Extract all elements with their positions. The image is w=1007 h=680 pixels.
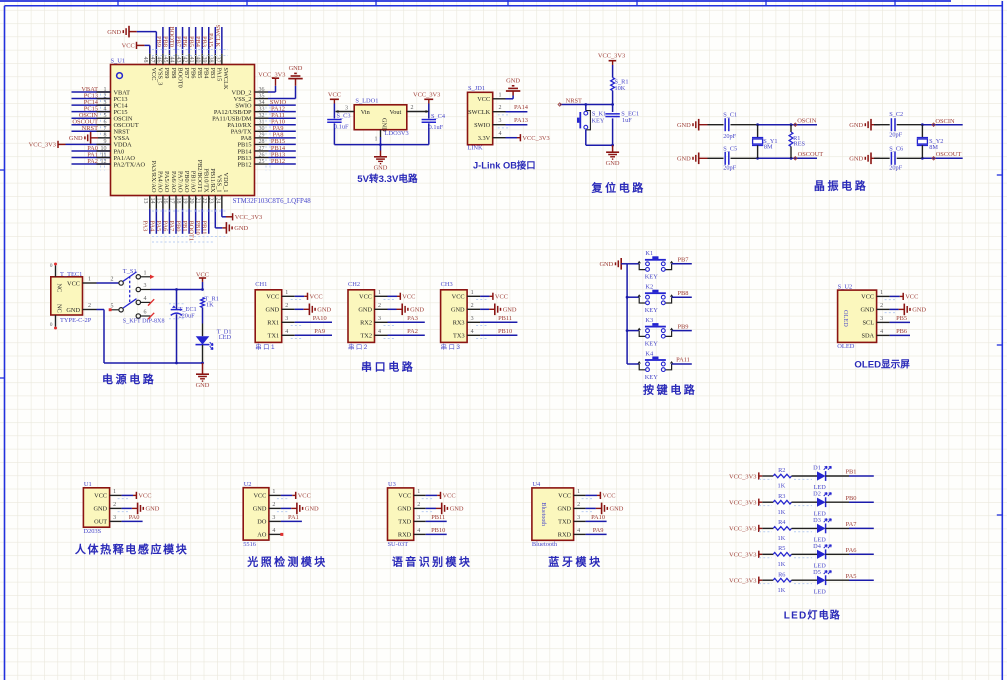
wire and node PB13 at MCU pin 26 xyxy=(255,151,296,164)
svg-text:PA7/AO: PA7/AO xyxy=(176,171,183,193)
power VCC at CH3 pin 1 xyxy=(467,290,508,301)
svg-text:OSCIN: OSCIN xyxy=(797,117,817,124)
power VCC_3V3 at LDO output xyxy=(413,92,440,112)
value serial port 3 xyxy=(441,343,462,351)
svg-text:TX3: TX3 xyxy=(453,333,465,340)
svg-text:D3: D3 xyxy=(813,517,821,524)
resistor R4 1K xyxy=(759,519,812,542)
svg-text:15: 15 xyxy=(155,198,161,204)
wire and node PC14 at MCU pin 3 xyxy=(72,99,111,112)
svg-text:GND: GND xyxy=(451,307,465,314)
svg-text:S_C1: S_C1 xyxy=(723,112,737,119)
svg-text:NRST: NRST xyxy=(82,125,98,132)
svg-text:30: 30 xyxy=(259,126,265,132)
svg-text:10: 10 xyxy=(101,146,107,152)
svg-text:PA11: PA11 xyxy=(676,357,690,364)
svg-text:D2: D2 xyxy=(813,491,821,498)
push button K1 KEY xyxy=(627,250,673,281)
svg-text:6: 6 xyxy=(144,310,147,316)
ground at key circuit xyxy=(599,258,627,270)
wire and node PB7 at key K1 xyxy=(672,257,692,264)
svg-text:0: 0 xyxy=(50,263,53,269)
svg-text:复位电路: 复位电路 xyxy=(591,181,646,195)
capacitor S_C1 20pF xyxy=(708,112,758,141)
svg-text:光照检测模块: 光照检测模块 xyxy=(246,555,327,569)
svg-text:20pF: 20pF xyxy=(723,133,736,140)
svg-text:PB0/AO: PB0/AO xyxy=(183,171,190,193)
svg-text:1K: 1K xyxy=(778,509,786,516)
svg-text:44: 44 xyxy=(168,57,174,63)
power VCC_3V3 at LED row 4 xyxy=(729,551,762,559)
svg-text:S_C3: S_C3 xyxy=(337,113,351,120)
svg-text:1: 1 xyxy=(272,489,275,495)
svg-text:GND: GND xyxy=(849,156,863,163)
svg-text:PA2: PA2 xyxy=(87,158,98,165)
ground at crystal 1 top xyxy=(677,119,708,131)
power VCC at CH2 pin 1 xyxy=(375,290,416,301)
svg-text:2: 2 xyxy=(577,502,580,508)
wire and node PA11 at MCU pin 32 xyxy=(255,112,296,125)
svg-text:VCC: VCC xyxy=(298,493,311,500)
svg-text:GND: GND xyxy=(677,156,691,163)
power VCC_3V3 at LED row 2 xyxy=(729,499,762,507)
svg-text:10K: 10K xyxy=(615,85,626,92)
svg-text:PB11: PB11 xyxy=(431,514,445,521)
ground at J-Link pin 1 xyxy=(493,78,521,99)
svg-text:4: 4 xyxy=(499,131,502,137)
svg-text:GND: GND xyxy=(677,122,691,129)
svg-text:LED: LED xyxy=(814,589,827,596)
wire power ground rail xyxy=(104,362,204,365)
svg-text:VCC: VCC xyxy=(196,271,209,278)
svg-text:PB5: PB5 xyxy=(188,36,195,47)
svg-text:GND: GND xyxy=(66,307,80,314)
svg-text:VCC: VCC xyxy=(67,280,80,287)
svg-text:PB11/RX: PB11/RX xyxy=(209,168,216,193)
value serial port 2 xyxy=(348,343,369,351)
svg-text:TX2: TX2 xyxy=(360,333,372,340)
svg-text:33: 33 xyxy=(259,106,265,112)
led D4 LED xyxy=(792,543,850,570)
svg-text:PB8: PB8 xyxy=(677,290,688,297)
svg-text:RX1: RX1 xyxy=(267,320,279,327)
svg-text:U4: U4 xyxy=(532,481,541,488)
value serial port 1 xyxy=(255,343,276,351)
connector S_U2 OLED body xyxy=(838,290,877,342)
svg-text:1: 1 xyxy=(471,290,474,296)
svg-text:2: 2 xyxy=(272,502,275,508)
svg-text:VCC: VCC xyxy=(122,43,135,50)
ground at U4 pin 2 xyxy=(574,502,624,514)
wire and node VBAT at MCU pin 1 xyxy=(72,86,111,99)
ground at crystal 2 bottom xyxy=(849,153,880,165)
svg-text:2: 2 xyxy=(111,277,114,283)
svg-text:20pF: 20pF xyxy=(889,164,902,171)
svg-text:SWIO: SWIO xyxy=(474,122,491,129)
ground at power circuit xyxy=(196,363,210,389)
svg-text:RX2: RX2 xyxy=(360,320,372,327)
wire and node PB5 at OLED pin 3 xyxy=(877,315,910,322)
svg-text:1: 1 xyxy=(375,137,378,143)
resistor S_R1 10K xyxy=(611,78,629,105)
wire and node PA10 at U4 pin 3 xyxy=(574,514,607,521)
wire and node BOOT1 at MCU pin 20 xyxy=(188,196,196,242)
svg-text:S_LDO1: S_LDO1 xyxy=(355,97,378,104)
push button K2 KEY xyxy=(627,284,673,315)
svg-text:8M: 8M xyxy=(764,143,773,150)
svg-text:20pF: 20pF xyxy=(723,164,736,171)
svg-text:VCC: VCC xyxy=(150,68,157,81)
svg-text:PA9: PA9 xyxy=(314,328,325,335)
connector CH2 body xyxy=(348,290,375,343)
svg-text:PA4: PA4 xyxy=(148,221,155,233)
svg-text:DO: DO xyxy=(257,519,267,526)
svg-text:KEY: KEY xyxy=(592,118,605,125)
designator CH1 xyxy=(255,281,267,288)
svg-text:S_C6: S_C6 xyxy=(889,145,903,152)
wire and node PB10 at CH3 pin 4 xyxy=(467,328,517,339)
svg-text:2: 2 xyxy=(104,93,107,99)
svg-text:RES: RES xyxy=(794,140,806,147)
pin TEC1 shell bottom xyxy=(50,315,57,330)
svg-text:PB1: PB1 xyxy=(845,469,856,476)
svg-text:PB7: PB7 xyxy=(183,68,190,79)
svg-text:PA6/AO: PA6/AO xyxy=(170,171,177,193)
wire and node PA6 at MCU pin 16 xyxy=(161,196,169,234)
svg-text:VCC_3V3: VCC_3V3 xyxy=(729,552,756,559)
wire and node PB6 at MCU pin 42 xyxy=(181,27,189,65)
svg-text:PA10: PA10 xyxy=(591,514,605,521)
wire and node PB0 at MCU pin 18 xyxy=(174,196,182,234)
svg-text:VCC: VCC xyxy=(310,294,323,301)
svg-text:VCC: VCC xyxy=(398,493,411,500)
svg-text:GND: GND xyxy=(599,261,613,268)
caption Bluetooth module xyxy=(548,555,602,569)
svg-text:VCC: VCC xyxy=(359,294,372,301)
wire and node PA4 at MCU pin 14 xyxy=(148,196,156,234)
svg-text:34: 34 xyxy=(259,100,265,106)
capacitor S_C6 20pF xyxy=(874,145,922,171)
svg-text:VCC_3V3: VCC_3V3 xyxy=(258,71,285,78)
wire and node PA7 at MCU pin 17 xyxy=(168,196,176,234)
wire OSCIN crystal 2 xyxy=(921,118,963,126)
svg-text:VCC_3V3: VCC_3V3 xyxy=(29,142,56,149)
led D3 LED xyxy=(792,517,850,544)
designator S_U2 xyxy=(838,283,853,290)
wire and node PB10 at MCU pin 21 xyxy=(194,196,202,235)
wire reset ground rail xyxy=(586,144,614,147)
svg-text:22: 22 xyxy=(201,198,207,204)
svg-text:OSCOUT: OSCOUT xyxy=(798,151,824,158)
svg-text:26: 26 xyxy=(259,152,265,158)
caption serial port circuit xyxy=(361,360,415,374)
wire and node PA3 at CH2 pin 3 xyxy=(375,315,425,326)
svg-text:1uF: 1uF xyxy=(622,117,632,124)
svg-text:VCC_3V3: VCC_3V3 xyxy=(729,473,756,480)
svg-text:4: 4 xyxy=(417,528,420,534)
svg-text:TXD: TXD xyxy=(398,519,411,526)
svg-text:GND: GND xyxy=(358,307,372,314)
wire and node PB11 at U3 pin 3 xyxy=(414,514,447,521)
svg-text:LED: LED xyxy=(219,334,232,341)
power VCC at OLED pin 1 xyxy=(877,290,919,301)
svg-text:串口电路: 串口电路 xyxy=(361,360,415,374)
svg-text:20pF: 20pF xyxy=(889,132,902,139)
svg-text:VCC_3V3: VCC_3V3 xyxy=(522,135,549,142)
ground at LDO rail xyxy=(374,151,388,172)
svg-text:VCC: VCC xyxy=(266,294,279,301)
wire and node PA2 at MCU pin 12 xyxy=(72,158,111,171)
wire and node PA10 at MCU pin 31 xyxy=(255,119,296,132)
wire and node PB11 at MCU pin 22 xyxy=(201,196,209,235)
svg-text:SDA: SDA xyxy=(861,333,874,340)
svg-text:PA14: PA14 xyxy=(514,104,529,111)
svg-text:1K: 1K xyxy=(778,535,786,542)
power VCC_3V3 at MCU pin 24 VDD_1 xyxy=(214,196,262,222)
svg-text:PB9: PB9 xyxy=(163,68,170,79)
svg-text:KEY: KEY xyxy=(645,340,659,347)
svg-text:PA5: PA5 xyxy=(846,573,857,580)
svg-text:0.1uF: 0.1uF xyxy=(334,124,349,131)
svg-text:VSS_1: VSS_1 xyxy=(216,175,223,193)
wire and node BOOT0 at MCU pin 44 xyxy=(168,26,176,64)
svg-text:3: 3 xyxy=(272,515,275,521)
svg-text:PB8: PB8 xyxy=(161,36,168,47)
svg-text:PB8: PB8 xyxy=(170,68,177,79)
led T_D1 LED xyxy=(196,329,232,364)
capacitor T_EC1 220uF xyxy=(169,290,197,364)
wire and node PA5 at MCU pin 15 xyxy=(155,196,163,234)
svg-text:PA13: PA13 xyxy=(514,117,528,124)
value SU-03T xyxy=(388,541,409,548)
svg-text:VCC: VCC xyxy=(558,493,571,500)
svg-text:GND: GND xyxy=(146,506,160,513)
svg-text:1: 1 xyxy=(144,270,147,276)
power VCC at LDO input xyxy=(328,92,341,112)
svg-text:6: 6 xyxy=(104,120,107,126)
svg-text:OLED显示屏: OLED显示屏 xyxy=(854,360,910,371)
svg-text:PB12: PB12 xyxy=(271,158,285,165)
wire and node NRST xyxy=(558,98,614,107)
svg-text:PB0: PB0 xyxy=(174,221,181,232)
svg-text:1K: 1K xyxy=(778,561,786,568)
svg-text:PA7: PA7 xyxy=(846,521,858,528)
wire and node PB5 at MCU pin 41 xyxy=(188,27,196,65)
module U1 body xyxy=(83,488,109,527)
svg-text:32: 32 xyxy=(259,113,265,119)
svg-text:S_C2: S_C2 xyxy=(889,111,903,118)
ground at OLED pin 2 xyxy=(877,303,927,315)
svg-text:PB11: PB11 xyxy=(201,221,208,235)
svg-text:GND: GND xyxy=(506,78,520,85)
capacitor S_C2 20pF xyxy=(874,111,922,138)
svg-text:PA10: PA10 xyxy=(313,315,327,322)
svg-text:VCC: VCC xyxy=(861,294,874,301)
svg-text:2: 2 xyxy=(411,105,414,111)
svg-text:D1: D1 xyxy=(813,465,821,472)
svg-text:PA3: PA3 xyxy=(407,315,418,322)
sheet frame outer top border xyxy=(0,0,951,2)
svg-text:PB1/AO: PB1/AO xyxy=(189,171,196,193)
svg-text:PA7: PA7 xyxy=(168,221,175,233)
svg-text:GND: GND xyxy=(450,506,464,513)
svg-text:39: 39 xyxy=(201,57,207,63)
svg-text:OUT: OUT xyxy=(94,519,107,526)
svg-text:PB3: PB3 xyxy=(201,36,208,47)
svg-text:K2: K2 xyxy=(645,284,653,291)
svg-text:GND: GND xyxy=(107,29,121,36)
resistor R3 1K xyxy=(759,493,812,516)
svg-text:R5: R5 xyxy=(778,545,785,552)
resistor R5 1K xyxy=(759,545,812,568)
value D203S xyxy=(83,528,101,535)
power VCC_3V3 at reset xyxy=(598,52,625,77)
svg-text:2: 2 xyxy=(471,303,474,309)
svg-text:D203S: D203S xyxy=(83,528,101,535)
svg-text:按键电路: 按键电路 xyxy=(643,383,697,397)
power VCC_3V3 at LED row 5 xyxy=(729,577,762,585)
svg-text:17: 17 xyxy=(168,198,174,204)
svg-text:48: 48 xyxy=(142,57,148,63)
svg-text:1: 1 xyxy=(285,290,288,296)
svg-text:1K: 1K xyxy=(206,301,214,308)
svg-text:人体热释电感应模块: 人体热释电感应模块 xyxy=(75,542,188,556)
svg-text:25: 25 xyxy=(259,159,265,165)
svg-text:KEY: KEY xyxy=(645,274,659,281)
svg-text:3: 3 xyxy=(417,515,420,521)
designator T_TEC1 xyxy=(60,271,82,278)
ground at U1 pin 2 xyxy=(110,502,160,514)
svg-text:GND: GND xyxy=(849,122,863,129)
value LINK xyxy=(467,145,483,152)
svg-text:PB6: PB6 xyxy=(181,36,188,47)
svg-text:AO: AO xyxy=(257,532,267,539)
svg-text:3: 3 xyxy=(285,316,288,322)
svg-text:GND: GND xyxy=(610,506,624,513)
svg-text:1: 1 xyxy=(88,276,91,282)
svg-text:D4: D4 xyxy=(813,543,822,550)
value STM32F103C8T6_LQFP48 xyxy=(233,198,312,205)
svg-text:4: 4 xyxy=(144,296,147,302)
svg-text:PB2/BOOT1: PB2/BOOT1 xyxy=(196,160,203,193)
svg-text:12: 12 xyxy=(101,159,107,165)
switch T_S1 S_KFT DIP-8X8 xyxy=(109,268,165,325)
svg-text:PB9: PB9 xyxy=(677,323,688,330)
svg-text:GND: GND xyxy=(253,506,267,513)
caption SU-03T module xyxy=(392,555,472,569)
module U2 body xyxy=(243,488,269,540)
wire and node PB1 at MCU pin 19 xyxy=(181,196,189,234)
svg-text:4: 4 xyxy=(104,106,107,112)
svg-text:CH3: CH3 xyxy=(441,281,453,288)
svg-text:3: 3 xyxy=(345,105,348,111)
power VCC_3V3 at MCU pin 36 VDD_2 xyxy=(255,71,286,92)
svg-text:K3: K3 xyxy=(645,317,653,324)
svg-text:SU-03T: SU-03T xyxy=(388,541,409,548)
svg-text:GND: GND xyxy=(374,164,388,171)
svg-text:1K: 1K xyxy=(778,483,786,490)
svg-text:8: 8 xyxy=(104,133,107,139)
value Bluetooth xyxy=(532,541,558,548)
svg-text:47: 47 xyxy=(149,57,155,63)
svg-text:S_C5: S_C5 xyxy=(723,145,737,152)
power VCC_3V3 at J-Link pin 4 xyxy=(493,131,550,142)
push button S_K1 KEY xyxy=(577,103,606,145)
svg-text:21: 21 xyxy=(195,198,201,204)
svg-text:TX1: TX1 xyxy=(268,333,280,340)
svg-text:S_K1: S_K1 xyxy=(592,110,606,117)
svg-text:20: 20 xyxy=(188,198,194,204)
svg-text:R2: R2 xyxy=(778,467,785,474)
svg-text:OLED: OLED xyxy=(837,343,854,350)
designator U2 xyxy=(244,481,252,488)
svg-text:NC: NC xyxy=(56,284,63,293)
svg-text:CH2: CH2 xyxy=(348,281,360,288)
svg-text:PA4/AO: PA4/AO xyxy=(157,171,164,193)
svg-text:3: 3 xyxy=(880,316,883,322)
svg-text:VCC_3V3: VCC_3V3 xyxy=(598,52,625,59)
svg-text:VCC_3V3: VCC_3V3 xyxy=(413,92,440,99)
svg-text:BOOT1: BOOT1 xyxy=(188,221,195,242)
svg-text:S_JD1: S_JD1 xyxy=(468,85,485,92)
svg-text:VCC_3V3: VCC_3V3 xyxy=(235,214,262,221)
wire and node PB12 at MCU pin 25 xyxy=(255,158,296,171)
svg-text:4: 4 xyxy=(471,329,474,335)
wire OSCOUT crystal 1 xyxy=(756,151,823,160)
svg-text:串口3: 串口3 xyxy=(441,343,462,351)
svg-text:11: 11 xyxy=(101,152,107,158)
designator U1 xyxy=(84,481,92,488)
svg-text:OSCOUT: OSCOUT xyxy=(936,151,962,158)
svg-text:GND: GND xyxy=(317,307,331,314)
ground at CH2 pin 2 xyxy=(375,303,425,315)
svg-text:1: 1 xyxy=(577,489,580,495)
svg-text:PA15: PA15 xyxy=(207,33,214,47)
svg-text:PB7: PB7 xyxy=(174,36,181,48)
power VCC_3V3 at LED row 3 xyxy=(729,525,762,533)
svg-text:2: 2 xyxy=(88,303,91,309)
svg-text:13: 13 xyxy=(142,198,148,204)
svg-text:2: 2 xyxy=(378,303,381,309)
led D1 LED xyxy=(792,465,850,492)
svg-text:36: 36 xyxy=(259,87,265,93)
svg-text:Vout: Vout xyxy=(390,109,402,116)
wire and node PB9 at MCU pin 46 xyxy=(155,27,163,65)
wire and node PA11 at key K4 xyxy=(672,357,692,364)
svg-text:PB7: PB7 xyxy=(677,257,689,264)
svg-text:VCC: VCC xyxy=(477,96,490,103)
wire LDO pin 3 Vin xyxy=(335,105,354,113)
svg-text:PB9: PB9 xyxy=(155,36,162,47)
svg-text:2: 2 xyxy=(499,105,502,111)
svg-text:24: 24 xyxy=(214,198,220,204)
power VCC at U3 pin 1 xyxy=(414,489,456,500)
svg-text:VCC: VCC xyxy=(94,493,107,500)
wire and node PA0 at MCU pin 10 xyxy=(72,145,111,158)
wire and node PB10 at U3 pin 4 xyxy=(414,527,447,534)
wire and node PA2 at CH2 pin 4 xyxy=(375,328,425,339)
wire and node PA5 at LED row 5 xyxy=(846,573,874,580)
svg-text:PB3: PB3 xyxy=(209,68,216,79)
caption 5516 module xyxy=(246,555,327,569)
designator CH2 xyxy=(348,281,360,288)
svg-text:NC: NC xyxy=(56,304,63,313)
svg-text:TXD: TXD xyxy=(558,519,571,526)
svg-text:28: 28 xyxy=(259,139,265,145)
svg-text:GND: GND xyxy=(410,307,424,314)
module U3 body xyxy=(388,488,414,540)
svg-text:RXD: RXD xyxy=(558,532,572,539)
